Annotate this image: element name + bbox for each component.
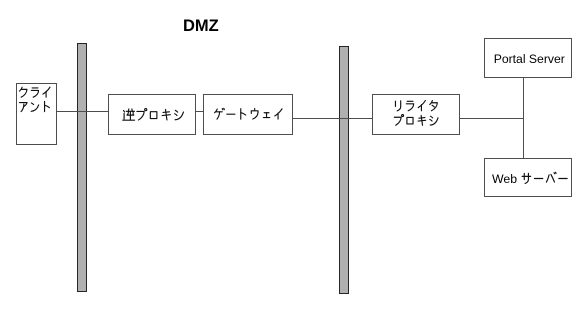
svg-text:Web: Web bbox=[492, 172, 517, 186]
svg-text:DMZ: DMZ bbox=[183, 17, 219, 35]
svg-text:Portal Server: Portal Server bbox=[494, 52, 565, 66]
